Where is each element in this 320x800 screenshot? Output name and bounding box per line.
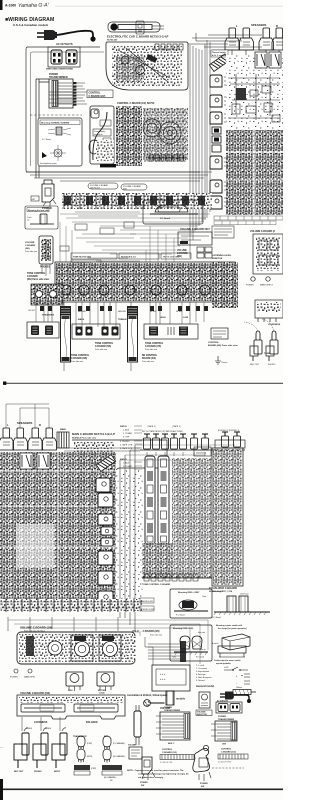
preamp mid dense bridge xyxy=(116,470,144,612)
IC package label 2 xyxy=(102,765,122,782)
volume board pot modules xyxy=(48,635,121,661)
svg-text:1 2 3 4 5 6 7 8 9: 1 2 3 4 5 6 7 8 9 xyxy=(160,762,172,764)
feed wire elbows xyxy=(120,445,235,460)
svg-text:Heat sink: Heat sink xyxy=(198,631,205,634)
svg-text:VOLU: VOLU xyxy=(132,630,139,633)
cap board component texture xyxy=(112,46,182,86)
RCA jack REC OUT (top panel) xyxy=(250,331,262,361)
RCA plug REC OUT (bottom) xyxy=(14,728,29,768)
svg-text:4. Average: 4. Average xyxy=(196,673,206,676)
ribbon cable connector box xyxy=(127,636,136,660)
power switch SW-R (australian) xyxy=(193,745,211,781)
driver transistor T6b xyxy=(98,571,113,585)
svg-text:C.BOARD (7/6): C.BOARD (7/6) xyxy=(145,345,161,348)
svg-text:3. Equalization: 3. Equalization xyxy=(196,670,209,673)
switch MAIN DIRECT indicator xyxy=(266,277,270,281)
connector strip board B xyxy=(128,315,138,362)
ground symbol xyxy=(215,356,227,364)
svg-text:NE CONTROL: NE CONTROL xyxy=(142,355,158,357)
equalizer board outline xyxy=(212,448,243,586)
svg-text:NOTE : Copper screws are used: NOTE : Copper screws are used for power … xyxy=(127,769,184,772)
svg-text:(N-CHANNEL): (N-CHANNEL) xyxy=(104,776,117,779)
connector band dark modules xyxy=(64,196,205,205)
svg-text:NC4745-2 Parts side view: NC4745-2 Parts side view xyxy=(72,437,97,440)
relay RY4 (bottom) xyxy=(37,453,50,469)
chassis inner line xyxy=(31,52,105,166)
wires from strips down xyxy=(64,363,131,371)
mounting detail box (screws) xyxy=(38,118,82,166)
svg-text:CONTROL: CONTROL xyxy=(208,342,219,344)
loudness small board xyxy=(194,447,211,456)
board bottom connector row xyxy=(148,155,186,161)
shielded cable duct 1 xyxy=(145,456,155,544)
svg-text:Mounting the heat sink: Mounting the heat sink xyxy=(28,209,50,212)
svg-text:1. L-ch A: 1. L-ch A xyxy=(196,664,205,667)
resistor component drawing xyxy=(228,687,256,695)
tone knob box 1 xyxy=(72,324,120,339)
svg-text:Mounting remote switch with: Mounting remote switch with xyxy=(216,624,243,627)
svg-text:Parts side view: Parts side view xyxy=(142,360,155,363)
svg-text:ELECTROLYTIC CAP. C.BOARD NC7: ELECTROLYTIC CAP. C.BOARD NC750 2-3.4.P xyxy=(107,35,169,39)
svg-text:BOARD (8/6) Parts side view: BOARD (8/6) Parts side view xyxy=(208,344,238,347)
fuse holder F1 (diagonal) xyxy=(209,54,229,71)
svg-text:MONITOR: MONITOR xyxy=(212,258,223,260)
left knobs column dense xyxy=(212,262,238,308)
power transistor Q6 xyxy=(210,196,230,209)
svg-text:FILTER: FILTER xyxy=(150,311,157,313)
mounting detail box R280 xyxy=(170,589,212,618)
svg-text:SW: SW xyxy=(201,786,204,788)
board label strip row 1 xyxy=(71,253,191,259)
svg-text:VOLUME C.BOARD NC7: VOLUME C.BOARD NC7 xyxy=(180,227,210,231)
svg-text:100mm: 100mm xyxy=(236,687,242,689)
main amp board dense (bottom-left) xyxy=(0,452,116,612)
bottom-left page mark xyxy=(0,779,3,800)
panel divider xyxy=(3,382,283,385)
svg-text:TRANSFORMER: TRANSFORMER xyxy=(164,709,181,712)
interconnect wires lower top-diagram xyxy=(44,302,190,324)
svg-text:C.BOARD: C.BOARD xyxy=(25,244,36,247)
svg-text:P.C. Board: P.C. Board xyxy=(42,139,51,141)
svg-text:VOLUME C.BOARD (5/6): VOLUME C.BOARD (5/6) xyxy=(20,691,50,695)
svg-text:Confirm that this mount switch: Confirm that this mount switch xyxy=(214,659,240,662)
knob BASS (bottom) xyxy=(66,672,83,691)
chassis outline xyxy=(26,47,200,172)
volume pot detail box xyxy=(145,637,190,705)
svg-text:SW: SW xyxy=(141,785,144,787)
svg-text:TONE CONTROL: TONE CONTROL xyxy=(71,355,90,357)
bottom-left connector strip xyxy=(0,599,142,612)
svg-text:Mounting R280 ~ R287: Mounting R280 ~ R287 xyxy=(178,591,200,594)
AC outlet socket SO1 xyxy=(48,47,80,67)
control board connector row (australian) xyxy=(160,755,194,765)
svg-text:TONE: TONE xyxy=(264,353,271,355)
main amp board dense components xyxy=(226,130,283,215)
svg-text:(PHONO 2) MIC: (PHONO 2) MIC xyxy=(141,609,155,611)
svg-text:VOLUME C.BOARD (2: VOLUME C.BOARD (2 xyxy=(250,230,276,233)
driver transistor T5b xyxy=(98,551,113,565)
power switch S1 xyxy=(42,180,56,207)
svg-text:PHONO: PHONO xyxy=(34,771,42,773)
label VOLUME C.BOARD (4/6) pill xyxy=(88,183,118,190)
control board connector row (general) xyxy=(218,754,248,764)
svg-text:VOLUME C.BOARD (1/6): VOLUME C.BOARD (1/6) xyxy=(20,626,52,630)
volume board 5/6 with sliders xyxy=(17,695,125,719)
terminal wire drops xyxy=(232,50,279,55)
svg-text:POWER: POWER xyxy=(218,716,226,718)
svg-text:2. Crossover: 2. Crossover xyxy=(196,668,208,670)
tone knob box 2 xyxy=(144,324,198,339)
power switch SW-L (australian) xyxy=(142,757,155,780)
svg-text:5. Both European: 5. Both European xyxy=(196,676,212,679)
svg-text:screws may be damaged by tight: screws may be damaged by tightening stro… xyxy=(138,773,189,776)
svg-text:the straps (for power operatio: the straps (for power operation) xyxy=(218,627,247,630)
speaker terminal R2 xyxy=(272,28,283,50)
mounting C101 C102 box xyxy=(170,625,212,661)
svg-text:Parts side view: Parts side view xyxy=(145,348,158,351)
svg-text:C.BOARD (3/6): C.BOARD (3/6) xyxy=(71,357,87,360)
svg-text:LOUDNESS: LOUDNESS xyxy=(268,324,281,326)
svg-text:b: b xyxy=(236,676,237,678)
svg-text:P.C. Board: P.C. Board xyxy=(160,218,171,220)
FET pinout N-CHANNEL xyxy=(103,749,126,763)
svg-text:TRANSFORMER: TRANSFORMER xyxy=(218,718,235,721)
svg-text:Parts side view: Parts side view xyxy=(95,348,108,351)
control board 8 box xyxy=(211,328,228,339)
control board 1/2 xyxy=(89,106,114,164)
capacitor block C2 xyxy=(212,127,221,152)
transistor pinout NPN xyxy=(77,749,93,763)
svg-text:. . C.BOARD (3/6): . . C.BOARD (3/6) xyxy=(140,630,160,633)
svg-text:PHONO: PHONO xyxy=(268,364,276,366)
RCA jack PHONO (top panel) xyxy=(266,331,278,361)
volume board 3/6 xyxy=(25,236,53,264)
svg-text:MAIN: MAIN xyxy=(60,428,66,431)
speaker wires xyxy=(188,33,276,50)
svg-text:(3/6): (3/6) xyxy=(25,248,30,250)
svg-text:REC OUT: REC OUT xyxy=(250,364,260,366)
speaker terminal L2 xyxy=(239,28,254,50)
svg-text:Chassis: Chassis xyxy=(221,362,227,364)
svg-text:ON OFF: ON OFF xyxy=(28,310,36,312)
control board relay area dense xyxy=(116,106,142,166)
knob MUTING (bottom) xyxy=(97,672,114,691)
svg-text:+ + +: + + + xyxy=(160,678,166,681)
speaker terminal BR2 xyxy=(42,428,57,450)
mounting detail box 3 (capacitor clamp) xyxy=(143,200,203,224)
svg-text:2. TUNER: 2. TUNER xyxy=(123,466,133,468)
svg-text:C90? lead: C90? lead xyxy=(240,594,248,596)
dashed jack cables xyxy=(244,319,274,331)
svg-text:(NPN): (NPN) xyxy=(87,756,93,758)
svg-text:6. Natural: 6. Natural xyxy=(196,679,205,682)
power transformer T2 (australian) xyxy=(156,712,190,740)
svg-text:REC OUT: REC OUT xyxy=(14,771,24,773)
small part box left of cap xyxy=(136,21,144,34)
svg-text:SWITCHED UNSWITCHED: SWITCHED UNSWITCHED xyxy=(46,69,74,71)
numbered list xyxy=(196,664,212,682)
svg-text:Power supply: Power supply xyxy=(94,131,105,133)
horizontal wire runs mid top-diagram xyxy=(60,214,210,254)
svg-text:C.BOARD (2/2): C.BOARD (2/2) xyxy=(89,95,106,98)
vertical wire drops mid top-diagram xyxy=(60,222,174,262)
svg-text:operate probably.: operate probably. xyxy=(216,662,231,665)
small boxes beside 5/6 xyxy=(197,247,212,258)
power transistor Q4 xyxy=(210,156,230,169)
NOTE paragraph xyxy=(127,769,189,779)
power transformer T1 xyxy=(49,79,73,108)
IC package label 1 xyxy=(74,765,97,775)
RCA plug PHONO (bottom) xyxy=(33,728,48,768)
svg-text:BALANCE: BALANCE xyxy=(86,721,98,724)
svg-text:A switch: A switch xyxy=(212,642,219,645)
phono jack mount plate xyxy=(215,440,245,448)
board bottom label rows xyxy=(214,216,283,225)
labels POWER MAIN DIRECT (bottom) xyxy=(14,669,18,673)
svg-text:1. AUX: 1. AUX xyxy=(123,429,130,432)
svg-text:MAIN (SPK): MAIN (SPK) xyxy=(24,676,35,679)
small transistor T4b xyxy=(101,538,113,546)
svg-text:P.C. Board: P.C. Board xyxy=(212,617,221,619)
page edge mark xyxy=(0,0,3,10)
svg-text:Yamaha G·A′: Yamaha G·A′ xyxy=(18,2,50,9)
svg-text:TONE CONTROL: TONE CONTROL xyxy=(95,343,114,345)
svg-text:DISC: DISC xyxy=(68,690,73,692)
svg-text:POWER: POWER xyxy=(140,782,148,784)
transformer lead pins xyxy=(49,82,76,106)
svg-text:General model: General model xyxy=(196,684,214,688)
svg-text:AC OUTLETS: AC OUTLETS xyxy=(217,700,229,703)
phono jack P2 xyxy=(222,432,229,447)
tone board left wing xyxy=(31,284,63,305)
switch POWER indicator xyxy=(251,277,255,281)
input switch list 2 xyxy=(120,459,133,480)
svg-text:TRANSFORMER: TRANSFORMER xyxy=(49,76,68,79)
label VOLTAGE SELECTOR xyxy=(196,710,212,716)
vertical feed wires xyxy=(190,40,210,258)
primary wires to power switch xyxy=(36,79,49,178)
svg-text:CONTROL: CONTROL xyxy=(221,749,232,751)
power transistor Q3 xyxy=(210,112,230,124)
small transistor T3b xyxy=(101,527,113,535)
svg-text:4. PHONO: 4. PHONO xyxy=(120,441,130,443)
white lanes in dense area xyxy=(0,452,116,612)
fuse F2 diagonal xyxy=(96,455,115,472)
dashed wire row xyxy=(30,114,82,116)
mounting detail box 2 xyxy=(25,206,58,229)
driver transistor T7b xyxy=(98,591,113,605)
main board upper parts xyxy=(74,442,114,488)
wire drops tone board to knobs xyxy=(36,302,204,327)
RCA jack row (rear panel) xyxy=(144,434,209,449)
lamp base hatch xyxy=(172,648,208,659)
svg-text:(N-CHANNEL): (N-CHANNEL) xyxy=(113,755,126,758)
label VOLUME C.BOARD (6/6) pill xyxy=(121,184,147,191)
preamp board dense (bottom) xyxy=(172,458,212,578)
svg-text:TRANSISTOR: TRANSISTOR xyxy=(73,735,87,738)
label CONTROL C.BOARD (2/2) xyxy=(87,90,113,98)
AC plug (australian) xyxy=(144,700,165,707)
svg-text:POWER: POWER xyxy=(10,677,18,679)
speaker terminal L1 xyxy=(225,28,240,50)
svg-text:(PHONO) MIC: (PHONO) MIC xyxy=(141,601,154,603)
svg-text:not tighten them strongly.: not tighten them strongly. xyxy=(138,776,164,779)
capacitor C118 xyxy=(239,596,248,612)
svg-text:P.C. Board: P.C. Board xyxy=(176,615,185,617)
extra mid wiring xyxy=(75,212,140,261)
scan edge line xyxy=(55,5,283,8)
electrolytic cap board outline xyxy=(106,42,188,90)
svg-text:C.BOARD (1/2): C.BOARD (1/2) xyxy=(162,751,177,754)
main board wires overlay xyxy=(230,130,274,215)
wire tag xyxy=(31,196,39,201)
svg-text:MAIN DIRECT: MAIN DIRECT xyxy=(260,284,274,287)
svg-text:Tube: Tube xyxy=(172,657,176,659)
svg-text:— ...: — ... xyxy=(0,747,4,749)
svg-text:( TAPE 1 ): ( TAPE 1 ) xyxy=(172,425,181,428)
svg-text:CONTROL C.BOARD (1/2) NC752: CONTROL C.BOARD (1/2) NC752 xyxy=(117,102,155,105)
svg-text:TONE CONTROL C.BOARD: TONE CONTROL C.BOARD xyxy=(142,583,171,586)
svg-text:TREBLE: TREBLE xyxy=(118,319,127,321)
svg-text:Tube: Tube xyxy=(202,596,206,598)
transistor Q7 xyxy=(96,478,110,492)
svg-text:REC OUT TAPE PB REC OUT TAPE P: REC OUT TAPE PB REC OUT TAPE PB AUX TUNE… xyxy=(142,430,183,433)
svg-text:4SW 1°: 4SW 1° xyxy=(168,742,175,745)
svg-text:MAIN C.BOARD NC7741 A,B,A,P: MAIN C.BOARD NC7741 A,B,A,P xyxy=(72,432,115,436)
svg-text:A-1060: A-1060 xyxy=(5,4,16,8)
connector clusters under tone board xyxy=(40,306,208,311)
svg-text:Parts side view: Parts side view xyxy=(25,250,38,253)
svg-text:wire adjust: wire adjust xyxy=(94,133,103,136)
voltage selector component xyxy=(199,692,210,708)
svg-text:(5/6): (5/6) xyxy=(177,256,182,258)
cap mounting base hatch xyxy=(212,612,270,619)
svg-text:3. OFF: 3. OFF xyxy=(123,437,130,439)
svg-text:Thermal switch: Thermal switch xyxy=(212,51,227,54)
svg-text:1SW: 1SW xyxy=(222,744,226,746)
vertical capacitor (australian) xyxy=(134,705,141,745)
jack feed wires xyxy=(22,717,60,731)
loudness board right xyxy=(255,300,283,322)
svg-text:Mounting C117, C118: Mounting C117, C118 xyxy=(212,590,233,593)
label Thermal switch xyxy=(211,50,228,57)
wire risers to detail area xyxy=(140,620,208,688)
main board outline (bottom) xyxy=(72,440,167,490)
svg-text:POWER: POWER xyxy=(164,707,172,709)
ribbon cable to volume pot xyxy=(148,641,186,662)
svg-text:models: models xyxy=(176,697,186,701)
relay RY3 (bottom) xyxy=(20,453,33,469)
transistor pinout PNP xyxy=(77,736,93,750)
svg-text:( TAPE 2 ): ( TAPE 2 ) xyxy=(147,425,156,428)
connector pin band xyxy=(62,193,212,209)
speaker terminal BR1 xyxy=(28,428,43,450)
speaker terminal BL2 xyxy=(13,428,28,450)
dense bridge between boards xyxy=(142,543,172,578)
driver transistor T2b xyxy=(98,514,113,525)
svg-text:MAX MIN: MAX MIN xyxy=(118,310,126,313)
svg-text:(P-CHANNEL): (P-CHANNEL) xyxy=(113,742,126,745)
svg-text:Australian & British, N.Europe: Australian & British, N.European xyxy=(127,693,168,697)
svg-text:SPEAKERS: SPEAKERS xyxy=(17,421,33,425)
wires above speaker terminals xyxy=(6,404,49,428)
lamp C102 xyxy=(192,636,202,649)
svg-text:P.C. Board: P.C. Board xyxy=(196,656,204,659)
volume board 1/6 (bottom) xyxy=(17,632,135,664)
svg-text:LISTENING LEVEL: LISTENING LEVEL xyxy=(212,255,232,257)
power transistor Q5 xyxy=(210,180,230,193)
transformer lead wires xyxy=(73,83,87,104)
relay RY1 xyxy=(255,52,267,68)
speaker terminal BL1 xyxy=(0,428,14,450)
svg-text:Parts side view: Parts side view xyxy=(71,360,84,363)
connector strip board A xyxy=(61,315,71,362)
svg-text:(4/6) NC753: (4/6) NC753 xyxy=(90,188,100,190)
power transistor Q2 xyxy=(210,95,230,107)
fuse strip xyxy=(57,432,69,448)
dashed separation line xyxy=(212,767,244,769)
svg-text:2. TUNER: 2. TUNER xyxy=(123,433,133,435)
svg-text:R: R xyxy=(39,423,41,427)
svg-text:NC750-200: NC750-200 xyxy=(107,40,118,42)
wires below strip xyxy=(8,617,118,631)
svg-text:a-476: a-476 xyxy=(224,667,228,669)
AC plug (general) xyxy=(220,692,251,704)
svg-text:SELECTOR: SELECTOR xyxy=(197,714,207,716)
svg-text:POWER: POWER xyxy=(246,285,254,287)
switch 3D drawing xyxy=(212,634,250,657)
capacitor C117 xyxy=(227,596,236,612)
volume board right xyxy=(253,234,283,274)
wires under jack row xyxy=(60,448,205,456)
lamp C101 xyxy=(180,636,190,649)
tone control main board (dense) xyxy=(55,262,235,302)
divider end square xyxy=(3,382,6,385)
svg-text:SHIELD: SHIELD xyxy=(26,728,33,730)
RCA plug INPUT (bottom) xyxy=(52,728,67,768)
svg-text:BASS: BASS xyxy=(78,318,85,321)
circular trace rings xyxy=(143,119,181,144)
driver transistor T1b xyxy=(98,493,113,507)
relay RY2 xyxy=(269,52,281,68)
svg-text:PHONES: PHONES xyxy=(40,266,51,269)
svg-text:BOARD (4/6): BOARD (4/6) xyxy=(142,357,156,360)
bottom rule xyxy=(0,789,283,791)
svg-text:C.BOARD (5/6): C.BOARD (5/6) xyxy=(95,345,111,348)
upper section discrete parts xyxy=(228,74,280,122)
svg-text:Final tightening torque: Final tightening torque xyxy=(40,162,57,165)
white lanes in main board xyxy=(226,130,283,215)
svg-text:TONE CONTROL: TONE CONTROL xyxy=(27,273,46,275)
svg-text:(6/6): (6/6) xyxy=(123,189,127,191)
svg-text:SHIELD: SHIELD xyxy=(45,728,52,730)
switch contact schematic xyxy=(224,667,250,685)
main amp board upper section (light) xyxy=(226,55,283,130)
svg-text:SW102: SW102 xyxy=(120,426,127,428)
svg-text:(PNP): (PNP) xyxy=(87,743,93,745)
power transistor Q1 xyxy=(210,75,230,87)
svg-text:Wire tie: Wire tie xyxy=(200,648,206,651)
svg-text:ion: ion xyxy=(27,219,29,221)
svg-text:LOUD: LOUD xyxy=(99,693,105,695)
labels PHONO MIC small boxes xyxy=(140,598,155,611)
svg-text:CONTROL: CONTROL xyxy=(162,749,173,751)
svg-text:Parts side view: Parts side view xyxy=(150,634,163,637)
divider line xyxy=(6,382,283,385)
svg-text:FILTER: FILTER xyxy=(176,311,183,313)
preamp bottom connector row xyxy=(142,574,212,581)
svg-text:HIGH: HIGH xyxy=(160,317,166,319)
